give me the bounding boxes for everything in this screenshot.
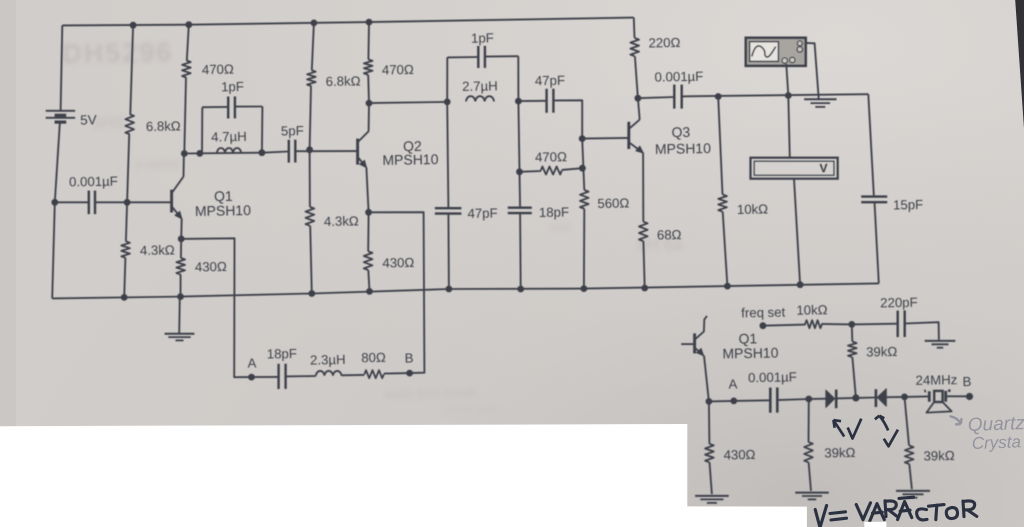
wire 430 second upper lead <box>367 212 369 251</box>
transistor Q1 sub <box>681 316 709 402</box>
node rail ground junction <box>177 293 184 300</box>
label 470Ω first <box>202 62 234 78</box>
wire center to D2 <box>856 397 876 399</box>
label Q2 <box>403 138 422 154</box>
wire cap to 39k node <box>778 399 809 400</box>
resistor 39kΩ first <box>848 342 857 358</box>
svg-text:2.7µH: 2.7µH <box>462 78 498 94</box>
node left cap junction <box>51 199 58 206</box>
node rail 4.3k second <box>308 290 315 297</box>
label 470Ω third <box>535 149 567 165</box>
wire 430 first lower lead <box>180 275 182 297</box>
node B sub <box>966 393 973 400</box>
svg-text:MPSH10: MPSH10 <box>655 140 712 157</box>
wire 430 sub lower lead <box>710 462 712 494</box>
svg-text:68Ω: 68Ω <box>657 227 682 242</box>
node 470 third left <box>516 168 523 175</box>
wire 39k third upper lead <box>905 397 910 446</box>
svg-text:18pF: 18pF <box>539 204 569 220</box>
svg-text:39kΩ: 39kΩ <box>824 445 856 461</box>
svg-text:HH: HH <box>550 220 569 235</box>
label 39kΩ first <box>866 344 898 360</box>
node A sub <box>730 398 737 405</box>
resistor 220Ω <box>630 38 639 56</box>
label 4.3kΩ second <box>324 213 359 229</box>
label 4.7uH <box>211 129 247 145</box>
wire tank2 left leg <box>446 57 448 102</box>
resistor 10kΩ <box>718 195 727 212</box>
node crystal left <box>901 394 908 401</box>
capacitor 18pF series <box>279 364 286 389</box>
label 5V <box>80 112 97 127</box>
svg-text:6.8kΩ: 6.8kΩ <box>326 73 361 89</box>
wire 39k first lower lead <box>852 357 856 398</box>
wire 39k second upper lead <box>808 399 810 442</box>
label Q3 MPSH10 <box>655 140 712 157</box>
resistor 470Ω third <box>541 167 562 175</box>
node rail shunt47 <box>446 286 453 293</box>
ground main <box>165 297 195 341</box>
wire crystal to B sub <box>946 395 970 397</box>
node rail shunt18 <box>517 286 524 293</box>
wire 15pF upper lead <box>868 94 874 196</box>
svg-text:V: V <box>819 161 827 175</box>
wire tank1 right leg <box>261 107 264 153</box>
svg-text:24MHz: 24MHz <box>915 372 957 388</box>
handwritten arrow varactor left <box>833 420 844 437</box>
transistor Q3 <box>629 98 644 222</box>
ground 39k second <box>795 493 829 500</box>
capacitor 47pF shunt <box>435 208 462 213</box>
wire scope probe lead <box>786 64 788 96</box>
svg-text:MPSH10: MPSH10 <box>382 151 439 168</box>
resistor 430Ω second <box>364 251 373 270</box>
label 0.001uF output <box>654 69 703 85</box>
ghost show-through text <box>62 37 683 417</box>
wire shunt18 lower lead <box>519 213 522 289</box>
node Q2 collector junction <box>366 100 373 107</box>
wire D2 to crystal node <box>886 396 904 398</box>
wire to crystal <box>905 395 929 398</box>
label 2.7uH <box>462 78 498 94</box>
capacitor 47pF series <box>547 89 554 113</box>
svg-text:2.3µH: 2.3µH <box>310 352 346 368</box>
label Q3 <box>671 124 690 140</box>
label 430Ω second <box>382 255 414 271</box>
label 24MHz <box>915 372 957 388</box>
wire 5pF to Q2 base <box>295 150 356 152</box>
svg-text:470Ω: 470Ω <box>535 149 567 165</box>
wire tank2 top right <box>485 55 518 57</box>
wire 80 to B <box>384 372 410 375</box>
capacitor 0.001uF input <box>89 191 95 215</box>
resistor 470Ω first <box>182 60 191 77</box>
label 5pF <box>281 123 304 138</box>
capacitor 1pF tank2 <box>478 46 485 68</box>
wire shunt18 mid lead <box>519 172 522 208</box>
label 470Ω second <box>382 62 414 78</box>
white page margin <box>0 424 886 527</box>
resistor 4.3kΩ second <box>306 207 315 226</box>
wire 18pF to inductor <box>286 375 316 377</box>
wire 560 upper lead <box>582 139 584 190</box>
wire 560 lower lead <box>583 209 585 289</box>
oscilloscope <box>746 38 806 66</box>
wire freq set to 10k <box>763 325 806 326</box>
wire 430 first upper lead <box>180 239 182 258</box>
svg-text:430Ω: 430Ω <box>195 259 227 275</box>
wire tank2 to 47pF <box>518 100 546 102</box>
wire shunt18 upper lead <box>518 101 519 172</box>
label 220pF <box>880 295 918 311</box>
ground scope <box>804 99 836 107</box>
wire scope ground lead <box>806 43 819 99</box>
wire 15pF lower lead <box>875 202 879 283</box>
node rail 430 second <box>366 288 373 295</box>
label 4.3kΩ left <box>140 242 175 258</box>
svg-text:5V: 5V <box>80 112 97 127</box>
wire 39k third lower lead <box>909 464 912 489</box>
node tank2 right <box>515 98 522 105</box>
capacitor 1pF tank1 <box>228 96 235 118</box>
label 1pF tank1 <box>221 79 244 94</box>
svg-text:1pF: 1pF <box>221 79 244 94</box>
node 10k junction <box>715 93 722 100</box>
node top rail 470 first <box>185 21 192 28</box>
label 15pF <box>893 197 923 213</box>
label A sub <box>728 376 737 391</box>
wire input cap right lead <box>95 201 127 203</box>
resistor 68Ω <box>639 222 648 241</box>
svg-text:470Ω: 470Ω <box>202 62 234 78</box>
resistor 80Ω <box>364 370 384 378</box>
svg-text:A: A <box>728 376 737 391</box>
resistor 430Ω sub <box>705 444 714 463</box>
wire voltmeter upper lead <box>788 96 790 158</box>
transistor Q2 <box>358 103 369 212</box>
wire shunt47 lower lead <box>447 214 450 289</box>
label 430Ω sub <box>723 447 755 463</box>
wire inductor to 80 <box>342 374 365 376</box>
transistor Q1 <box>127 154 184 239</box>
svg-text:5HS: 5HS <box>93 115 125 133</box>
resistor 430Ω first <box>176 258 185 275</box>
resistor 10kΩ sub <box>805 320 822 328</box>
wire 470 first lower lead <box>184 78 186 154</box>
svg-text:8 HMS8: 8 HMS8 <box>135 158 179 173</box>
wire 4.3k second lower lead <box>310 226 312 294</box>
wire 430 sub upper lead <box>708 401 711 443</box>
wire battery top lead <box>61 25 63 110</box>
svg-text:MPSH10: MPSH10 <box>195 202 252 219</box>
node B <box>406 370 413 377</box>
handwritten V mark left <box>848 419 862 439</box>
wire out cap left lead <box>638 97 674 98</box>
node tank1 left <box>196 150 203 157</box>
wire A to 18pF <box>252 376 279 378</box>
wire voltmeter lower lead <box>794 179 800 285</box>
wire Q1 emitter to A <box>181 238 251 377</box>
node tank2 left <box>444 99 451 106</box>
capacitor 0.001uF sub <box>770 388 777 413</box>
label 10kΩ sub <box>796 302 828 318</box>
svg-text:6.8kΩ: 6.8kΩ <box>146 118 181 134</box>
svg-text:1pF: 1pF <box>471 30 494 45</box>
label 1pF tank2 <box>471 30 494 45</box>
capacitor 5pF <box>289 140 296 163</box>
label A <box>247 355 256 370</box>
wire tank1 top left <box>202 106 228 108</box>
svg-text:39kΩ: 39kΩ <box>923 448 955 464</box>
svg-text:430Ω: 430Ω <box>723 447 755 463</box>
label 39kΩ third <box>923 448 955 464</box>
svg-text:4.3kΩ: 4.3kΩ <box>324 213 359 229</box>
svg-text:5pF: 5pF <box>281 123 304 138</box>
resistor 6.8kΩ second <box>307 70 316 86</box>
svg-text:freq set: freq set <box>741 305 786 321</box>
dark corner background <box>1015 0 1024 129</box>
node 470 third right <box>579 165 586 172</box>
diode varactor D2 <box>876 389 886 407</box>
wire 10k sub to junction <box>821 323 851 326</box>
capacitor 0.001uF output <box>674 85 681 109</box>
svg-text:220Ω: 220Ω <box>648 35 680 51</box>
label Q1 sub <box>738 330 757 346</box>
handwritten arrow quartz <box>950 416 962 424</box>
wire tank2 top left <box>447 56 478 58</box>
svg-text:470Ω: 470Ω <box>382 62 414 78</box>
wire input cap left lead <box>55 201 89 203</box>
label 220Ω <box>648 35 680 51</box>
node freq junction <box>848 321 855 328</box>
wire Q1 collector to tank1 <box>184 152 262 155</box>
wire 10k upper lead <box>718 97 722 195</box>
svg-text:220pF: 220pF <box>880 295 918 311</box>
wire Q2 collector to tank2 <box>369 102 447 103</box>
svg-text:0.001µF: 0.001µF <box>748 369 797 385</box>
label Q1 <box>214 188 233 204</box>
svg-text:80Ω: 80Ω <box>361 350 386 365</box>
label 68Ω <box>657 227 682 242</box>
node Q1 base junction <box>124 199 131 206</box>
label Q2 MPSH10 <box>382 151 439 168</box>
resistor 470Ω second <box>364 59 373 75</box>
handwritten arrow varactor right <box>875 416 888 431</box>
svg-text:Crysta: Crysta <box>971 432 1021 453</box>
node scope probe junction <box>785 92 792 99</box>
label 47pF shunt <box>467 205 497 221</box>
wire emitter to A sub <box>709 400 734 403</box>
label 18pF shunt <box>539 204 569 220</box>
label 80Ω <box>361 350 386 365</box>
svg-text:MPSH10: MPSH10 <box>722 345 779 362</box>
wire shunt47 upper lead <box>447 102 448 208</box>
node Q3 base junction <box>579 135 586 142</box>
wire tank1 to 5pF <box>262 152 289 153</box>
capacitor 18pF shunt <box>508 208 532 213</box>
svg-text:0.001µF: 0.001µF <box>69 174 118 190</box>
diode varactor D1 <box>826 390 836 409</box>
node tank1 right <box>259 149 266 156</box>
wire 4.3k lower lead <box>124 258 125 298</box>
wire top supply rail <box>62 18 634 26</box>
handwritten V mark right <box>884 430 898 447</box>
wire 470 first upper lead <box>187 25 189 61</box>
wire to D1 <box>809 398 826 400</box>
node Q1 emitter junction <box>178 236 185 243</box>
label Q1 sub MPSH10 <box>722 345 779 362</box>
wire battery bottom lead <box>52 122 60 298</box>
crystal 24MHz <box>925 389 952 412</box>
svg-text:39kΩ: 39kΩ <box>866 344 898 360</box>
handwritten note Quartz <box>967 413 1024 436</box>
wire 470 second lower lead <box>367 75 370 103</box>
wire 470 third right lead <box>562 168 583 170</box>
wire 6.8k to base node <box>127 134 129 202</box>
wire 220pF right lead <box>905 322 939 340</box>
wire 6.8k second upper lead <box>312 23 314 70</box>
svg-text:DH5296: DH5296 <box>62 37 174 69</box>
node varactor center <box>852 394 859 401</box>
node freq set <box>760 322 767 329</box>
wire 470 second upper lead <box>367 22 370 59</box>
node rail 4.3k <box>121 294 128 301</box>
svg-text:560Ω: 560Ω <box>597 195 629 211</box>
node top rail 470 second <box>366 19 373 26</box>
svg-text:430Ω: 430Ω <box>382 255 414 271</box>
wire tank1 top right <box>235 106 263 108</box>
inductor 2.7uH <box>466 96 494 101</box>
node rail voltmeter <box>797 281 804 288</box>
svg-text:A: A <box>247 355 256 370</box>
wire 6.8k upper lead <box>130 25 133 114</box>
capacitor 220pF <box>898 311 905 338</box>
battery 5V <box>46 111 75 122</box>
svg-text:HHS8 BH8: HHS8 BH8 <box>443 405 498 418</box>
label 560Ω <box>597 195 629 211</box>
label freq set <box>741 305 786 321</box>
resistor 6.8kΩ left <box>125 114 134 134</box>
node varactor left <box>805 396 812 403</box>
svg-text:47pF: 47pF <box>535 73 565 89</box>
node rail 68 <box>641 285 648 292</box>
wire out cap right to corner <box>682 94 869 96</box>
ground 430 sub <box>695 496 729 503</box>
wire D1 to center <box>836 397 856 400</box>
node Q1 collector junction <box>181 150 188 157</box>
wire 39k first upper lead <box>851 324 854 341</box>
wire Q2 emitter to B <box>369 212 425 373</box>
node rail 10k <box>724 283 731 290</box>
node top rail 6.8k second <box>311 20 318 27</box>
label 430Ω first <box>195 259 227 275</box>
svg-text:18pF: 18pF <box>267 346 297 362</box>
wire 220 upper lead <box>633 18 636 38</box>
handwritten V equals VARACTOR <box>815 497 977 527</box>
svg-text:B: B <box>405 350 414 365</box>
capacitor 15pF <box>861 197 887 203</box>
wire bottom rail <box>52 283 879 298</box>
svg-text:10kΩ: 10kΩ <box>796 302 828 318</box>
node sub emitter junction <box>706 398 713 405</box>
node rail 560 <box>581 285 588 292</box>
wire 430 second lower lead <box>368 270 369 291</box>
label B sub <box>962 374 971 389</box>
svg-text:0.001µF: 0.001µF <box>654 69 703 85</box>
svg-text:47pF: 47pF <box>467 205 497 221</box>
wire tank1 left leg <box>201 107 203 153</box>
wire 4.3k upper lead <box>126 202 127 241</box>
svg-text:4HS8 8HB 8HHB: 4HS8 8HB 8HHB <box>383 386 477 402</box>
resistor 39kΩ second <box>804 442 813 462</box>
node Q3 collector junction <box>635 95 642 102</box>
label 6.8kΩ left <box>146 118 181 134</box>
wire 470 third left lead <box>520 170 542 173</box>
node top rail 6.8k <box>130 22 137 29</box>
node A <box>248 374 255 381</box>
wire 6.8k second lower lead <box>310 86 311 150</box>
svg-text:Q3: Q3 <box>671 124 690 140</box>
svg-text:4.3kΩ: 4.3kΩ <box>140 242 175 258</box>
voltmeter <box>751 158 838 179</box>
wire 10k lower lead <box>723 212 728 286</box>
svg-text:4.7µH: 4.7µH <box>211 129 247 145</box>
resistor 560Ω <box>580 190 589 209</box>
svg-text:10kΩ: 10kΩ <box>737 201 769 217</box>
wire tank2 right leg <box>517 56 519 101</box>
inductor 4.7uH <box>217 148 241 153</box>
label 47pF series <box>535 73 565 89</box>
wire 47pF to corner <box>553 100 628 138</box>
resistor 4.3kΩ left <box>121 241 130 258</box>
label B <box>405 350 414 365</box>
label 2.3uH <box>310 352 346 368</box>
label 0.001uF input <box>69 174 118 190</box>
inductor 2.3uH <box>316 371 342 376</box>
svg-text:B: B <box>962 374 971 389</box>
node Q2 emitter junction <box>365 209 372 216</box>
wire 220 lower lead <box>635 56 638 98</box>
label 0.001uF sub <box>748 369 797 385</box>
label 39kΩ second <box>824 445 856 461</box>
resistor 39kΩ third <box>905 446 914 465</box>
svg-text:15pF: 15pF <box>893 197 923 213</box>
label 18pF series <box>267 346 297 362</box>
wire 68 lower lead <box>643 241 644 288</box>
wire 220pF left lead <box>852 323 898 326</box>
node Q2 base junction <box>306 146 313 153</box>
wire A sub to cap <box>734 399 771 402</box>
handwritten note Crystal <box>971 432 1021 453</box>
ground 39k third <box>896 491 930 498</box>
label 6.8kΩ second <box>326 73 361 89</box>
label 10kΩ <box>737 201 769 217</box>
wire 39k second lower lead <box>809 462 811 491</box>
label Q1 MPSH10 <box>195 202 252 219</box>
ground 220pF <box>925 341 956 348</box>
wire 4.3k second upper lead <box>309 150 311 207</box>
